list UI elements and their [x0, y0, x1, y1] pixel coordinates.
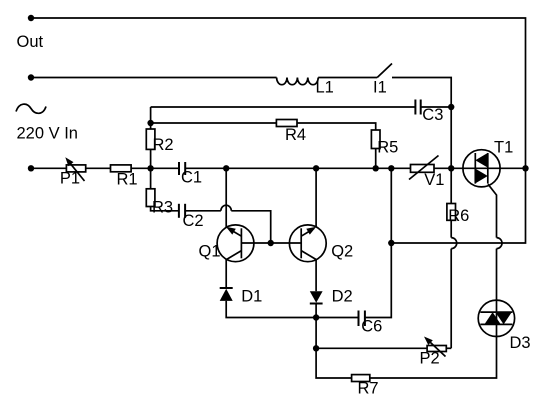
- node right edge junction: [522, 165, 528, 171]
- wire C3 to switch vertical: [421, 106, 451, 108]
- wire D1 to bottom line: [226, 301, 316, 318]
- resistor R7: [352, 375, 370, 382]
- node R5 bottom junction: [373, 165, 379, 171]
- capacitor C2: [179, 204, 185, 218]
- node D2 bottom junction: [313, 314, 319, 320]
- potentiometer P1: [65, 157, 85, 181]
- wire D3 to bottom: [370, 337, 497, 379]
- resistor R6: [447, 204, 456, 221]
- svg-text:R2: R2: [153, 136, 174, 154]
- varistor V1: [409, 156, 439, 180]
- wire bottom line to C6: [316, 317, 358, 319]
- node C3 right junction: [448, 104, 454, 110]
- node P2 branch junction: [313, 345, 319, 351]
- transistor Q1: [217, 225, 254, 262]
- diode D2: [310, 291, 323, 303]
- wire P1 to R1: [86, 167, 111, 169]
- wire gate line to D3: [496, 249, 498, 301]
- node Q2 top junction: [313, 165, 319, 171]
- wire R4 line left: [151, 122, 277, 124]
- wire T1 gate diagonal: [488, 184, 497, 237]
- svg-text:C2: C2: [183, 212, 204, 230]
- wire top C3 line: [151, 106, 416, 108]
- svg-text:I1: I1: [373, 79, 387, 97]
- svg-text:R5: R5: [377, 139, 398, 157]
- wire 220V input line: [31, 77, 277, 79]
- wire bus C1 to V1: [186, 167, 411, 169]
- svg-text:T1: T1: [494, 139, 513, 157]
- resistor R2: [146, 129, 155, 149]
- node bus left terminal: [28, 165, 34, 171]
- wire hop gate line over mid line: [497, 238, 503, 249]
- wire P2 line: [316, 347, 427, 349]
- svg-text:Q1: Q1: [199, 242, 221, 260]
- node C3-R6 bus junction: [448, 165, 454, 171]
- wire hop to P2 corner: [450, 249, 452, 349]
- resistor R5: [371, 130, 380, 149]
- svg-text:C3: C3: [422, 106, 443, 124]
- svg-text:R1: R1: [117, 171, 138, 189]
- svg-text:R4: R4: [285, 126, 306, 144]
- wire switch to right vertical: [392, 78, 451, 108]
- svg-text:C1: C1: [181, 168, 202, 186]
- node mid line junction: [388, 240, 394, 246]
- wire inductor to switch: [318, 77, 377, 79]
- node base junction: [268, 240, 274, 246]
- transistor Q2: [289, 225, 326, 262]
- svg-text:P2: P2: [420, 349, 440, 367]
- node R2-R4 junction: [147, 120, 153, 126]
- wire Q1 collector to D1: [225, 260, 227, 289]
- svg-text:R7: R7: [358, 380, 379, 398]
- wire Q2 emitter lead from bus: [315, 168, 317, 227]
- diac D3: [478, 300, 514, 336]
- wire R3 to C2: [151, 207, 179, 211]
- svg-text:D2: D2: [332, 288, 353, 306]
- wire R4 to R5: [297, 123, 376, 130]
- node top-left Out terminal: [28, 15, 34, 21]
- resistor R1: [111, 165, 132, 172]
- wire C2 to hop: [186, 210, 221, 212]
- AC sine symbol: [16, 104, 46, 113]
- svg-text:D1: D1: [241, 288, 262, 306]
- wire C6 to mid vertical: [366, 168, 392, 317]
- wire P2 to R6 vertical: [446, 347, 451, 349]
- wire R5 to bus: [375, 149, 377, 169]
- wire R6 down to hop: [450, 220, 452, 237]
- capacitor C1: [179, 162, 185, 175]
- wire lower left vertical: [316, 318, 352, 379]
- diode D1: [220, 288, 233, 301]
- potentiometer P2: [424, 337, 446, 357]
- svg-text:P1: P1: [60, 170, 80, 188]
- wire Q2 collector to D2: [315, 260, 317, 292]
- inductor L1: [277, 78, 319, 85]
- wire main bus left segment: [31, 167, 66, 169]
- wire C3-R6 vertical upper: [450, 107, 452, 204]
- node Q1 top junction: [223, 165, 229, 171]
- wire R1 to C1 via node: [131, 167, 178, 169]
- wire R3 branch: [150, 168, 152, 189]
- svg-text:D3: D3: [510, 334, 531, 352]
- wire T1 to right edge: [500, 167, 525, 169]
- node mid vertical junction: [388, 165, 394, 171]
- svg-text:R3: R3: [152, 198, 173, 216]
- switch I1: [377, 64, 392, 78]
- wire D2 to bottom line: [315, 304, 317, 318]
- svg-text:220 V In: 220 V In: [17, 125, 78, 143]
- wire Q1-Q2 base line: [241, 242, 301, 244]
- capacitor C3: [415, 100, 420, 115]
- resistor R3: [146, 189, 155, 207]
- capacitor C6: [359, 311, 365, 327]
- wire R2 branch vertical top: [150, 107, 152, 129]
- wire R2 to bus: [150, 149, 152, 168]
- wire hop R6 line over mid line: [451, 238, 457, 249]
- svg-text:Out: Out: [17, 33, 44, 51]
- svg-text:C6: C6: [361, 318, 382, 336]
- wire top Out line: [31, 18, 526, 243]
- wire hop over Q1 lead: [221, 205, 231, 211]
- node input terminal: [28, 74, 34, 80]
- svg-text:L1: L1: [316, 79, 334, 97]
- wire V1 to T1: [434, 167, 463, 169]
- svg-text:V1: V1: [424, 171, 444, 189]
- node bus / R2 R3 junction: [147, 165, 153, 171]
- svg-text:Q2: Q2: [331, 242, 353, 260]
- triac T1: [463, 150, 500, 187]
- resistor R4: [276, 120, 297, 127]
- wire hop to base corner: [231, 211, 270, 243]
- wire Q1 emitter lead from bus: [225, 168, 227, 227]
